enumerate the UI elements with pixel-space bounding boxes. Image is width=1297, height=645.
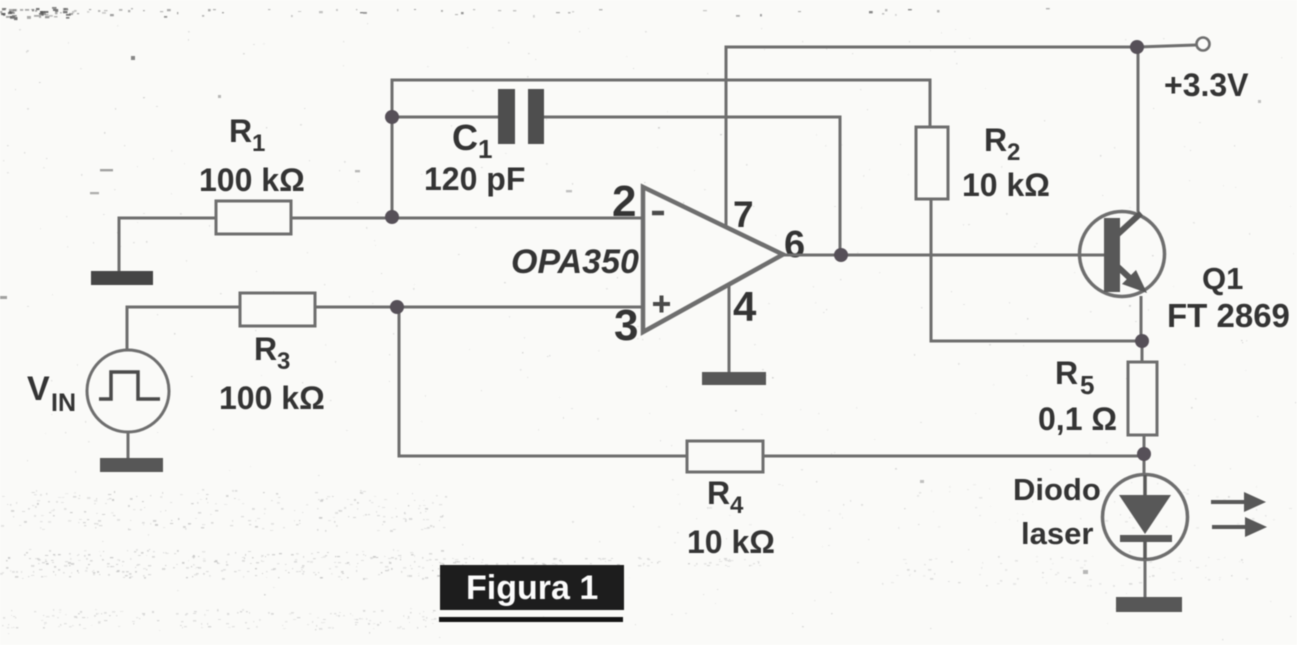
node pin3 xyxy=(390,300,404,314)
node emitter xyxy=(1135,334,1149,348)
wire R3 to pin3 xyxy=(315,306,643,309)
source VIN xyxy=(87,350,169,432)
wire top rail +3.3V xyxy=(726,45,1196,229)
wire VIN to ground xyxy=(127,432,130,459)
label Diodo xyxy=(1013,472,1101,507)
label R1 xyxy=(229,113,265,157)
svg-text:2: 2 xyxy=(612,177,636,226)
svg-text:10 kΩ: 10 kΩ xyxy=(962,167,1050,203)
label R5 xyxy=(1055,355,1094,400)
node output xyxy=(834,248,848,262)
wire R4 to laser node xyxy=(763,455,1144,458)
label C1 xyxy=(452,117,492,164)
svg-text:1: 1 xyxy=(478,134,492,164)
pin 6 label xyxy=(784,224,805,266)
wire emitter down xyxy=(1140,296,1143,341)
svg-text:1: 1 xyxy=(252,130,265,157)
svg-text:R: R xyxy=(229,113,252,149)
svg-text:Q1: Q1 xyxy=(1202,261,1243,296)
wire pin3 node down xyxy=(399,307,687,456)
svg-text:7: 7 xyxy=(733,194,754,235)
wire C1 left xyxy=(392,116,499,119)
wire pin4 to ground xyxy=(728,284,731,373)
label 120 pF xyxy=(424,161,525,197)
label VIN xyxy=(27,370,76,417)
svg-text:R: R xyxy=(254,331,277,367)
ground G4 xyxy=(1116,597,1182,612)
label laser xyxy=(1021,516,1093,551)
wire R2 bottom to emitter xyxy=(931,199,1142,341)
label R3 xyxy=(254,331,290,375)
wire R1 left xyxy=(119,218,216,272)
svg-text:100 kΩ: 100 kΩ xyxy=(199,162,305,198)
light arrow 2 xyxy=(1212,517,1267,537)
resistor R3 xyxy=(240,293,315,326)
op-amp U1 OPA350 xyxy=(643,187,783,332)
label 100 kOhm R1 xyxy=(199,162,305,198)
pin 2 label xyxy=(612,177,636,226)
label Q1 xyxy=(1202,261,1243,296)
label R4 xyxy=(707,475,744,519)
svg-text:Figura 1: Figura 1 xyxy=(466,569,598,607)
label 0,1 Ohm R5 xyxy=(1038,401,1117,437)
svg-text:V: V xyxy=(27,370,50,408)
svg-text:R: R xyxy=(1055,355,1078,391)
resistor R4 xyxy=(687,441,763,472)
wire laser to ground xyxy=(1144,559,1147,598)
svg-text:IN: IN xyxy=(51,389,76,417)
node laser anode xyxy=(1137,447,1151,461)
wire R5 to laser xyxy=(1143,435,1146,476)
node 3.3V xyxy=(1130,40,1144,54)
svg-text:2: 2 xyxy=(1007,139,1020,166)
svg-text:OPA350: OPA350 xyxy=(511,243,639,281)
svg-text:100 kΩ: 100 kΩ xyxy=(219,380,325,416)
svg-text:laser: laser xyxy=(1021,516,1093,551)
wire pin7 xyxy=(725,47,728,229)
label FT 2869 xyxy=(1167,297,1290,334)
capacitor C1 xyxy=(498,89,544,144)
ground G2 xyxy=(100,458,163,472)
svg-text:R: R xyxy=(707,475,730,511)
svg-text:3: 3 xyxy=(614,301,638,350)
wire VIN to R3 xyxy=(127,307,240,350)
label 10 kOhm R4 xyxy=(687,524,775,560)
svg-text:C: C xyxy=(452,117,478,158)
wire output to base xyxy=(783,254,1104,257)
pin 4 label xyxy=(733,283,757,330)
ground G3 xyxy=(702,372,766,385)
label 100 kOhm R3 xyxy=(219,380,325,416)
svg-text:120 pF: 120 pF xyxy=(424,161,525,197)
ground G1 xyxy=(91,271,153,285)
svg-text:6: 6 xyxy=(784,224,805,266)
svg-text:+3.3V: +3.3V xyxy=(1164,67,1249,103)
label 10 kOhm R2 xyxy=(962,167,1050,203)
wire C1 right to output xyxy=(543,117,840,250)
figura 1 box xyxy=(439,565,624,622)
transistor Q1 xyxy=(1080,212,1165,297)
svg-text:3: 3 xyxy=(277,348,290,375)
resistor R1 xyxy=(216,201,291,234)
terminal +3.3V xyxy=(1197,38,1210,51)
light arrow 1 xyxy=(1211,492,1266,512)
svg-text:4: 4 xyxy=(730,492,744,519)
pin 7 label xyxy=(733,194,754,235)
label +3.3V xyxy=(1164,67,1249,103)
svg-text:Diodo: Diodo xyxy=(1013,472,1101,507)
svg-text:0,1 Ω: 0,1 Ω xyxy=(1038,401,1117,437)
svg-text:10 kΩ: 10 kΩ xyxy=(687,524,775,560)
wire collector xyxy=(1137,47,1140,212)
wire emitter node to R5 xyxy=(1141,341,1144,363)
node pin2 xyxy=(385,210,399,224)
svg-text:5: 5 xyxy=(1080,370,1094,400)
pin 3 label xyxy=(614,301,638,350)
resistor R2 xyxy=(916,127,948,199)
label R2 xyxy=(984,122,1020,166)
svg-text:FT 2869: FT 2869 xyxy=(1167,297,1290,334)
node C1 top xyxy=(385,110,399,124)
laser diode D1 xyxy=(1103,475,1188,561)
wire feedback top rail xyxy=(392,80,930,217)
label OPA350 xyxy=(511,243,639,281)
resistor R5 xyxy=(1128,362,1157,435)
svg-text:R: R xyxy=(984,122,1007,158)
svg-text:4: 4 xyxy=(733,283,757,330)
wire R1 to pin2 xyxy=(291,217,643,220)
